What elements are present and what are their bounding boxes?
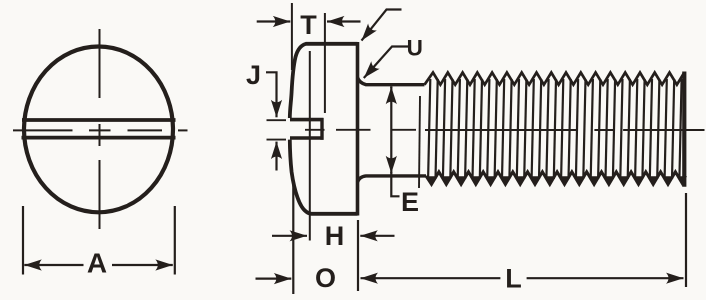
svg-text:U: U [407, 36, 423, 61]
dim T left arrow [257, 20, 291, 22]
slot depth line across crown [309, 51, 311, 241]
dim L right arrow [527, 277, 684, 279]
slot lower edge (front) [22, 136, 176, 140]
svg-text:A: A [87, 248, 107, 279]
dim A extension line right [174, 206, 176, 275]
slot (side view notch) top edge [290, 118, 324, 122]
slot (side view notch) bottom of slot vertical [320, 118, 323, 140]
head outline (pan head profile) [290, 44, 358, 118]
dim T right extension line [324, 13, 326, 113]
fillet + neck bottom line [358, 176, 427, 182]
dim L left arrow [361, 277, 501, 279]
slot edge extension (lower, for J) [267, 139, 287, 141]
dim H left arrow [272, 235, 307, 237]
head bearing face (right side) [356, 42, 360, 216]
thread crest outline top [425, 73, 685, 85]
screw axis centerline [305, 129, 705, 131]
dim E line with arrows [390, 86, 392, 88]
corner leader (to head corner) [362, 10, 402, 41]
svg-text:T: T [300, 10, 317, 40]
dim T right arrow [327, 20, 361, 22]
dim A extension line left [22, 206, 24, 275]
dim J lower arrow [275, 142, 277, 171]
dim A arrow left [24, 264, 83, 266]
svg-text:O: O [315, 263, 336, 293]
vertical centerline (front) [99, 29, 101, 229]
thread flank lines [428, 79, 681, 179]
slot edge extension (upper, for J) [267, 119, 287, 121]
thread crest outline bottom [426, 172, 684, 185]
dim O extension line [292, 179, 294, 294]
svg-text:J: J [246, 60, 261, 90]
dim H/L shared extension line [357, 220, 359, 291]
end face of screw [682, 72, 686, 187]
thread runout line [419, 96, 420, 188]
horizontal centerline (front) [13, 129, 188, 131]
dim O arrow [256, 278, 292, 280]
dim E leader to label [391, 172, 399, 196]
head outline circle [24, 46, 173, 212]
thread root fill (bottom tips) [427, 176, 687, 184]
dim A arrow right [112, 264, 173, 266]
dim L extension line right [685, 193, 687, 287]
slot (side view notch) bottom edge [290, 136, 324, 140]
svg-text:E: E [401, 187, 419, 217]
slot upper edge (front) [22, 118, 176, 122]
fillet + neck top line [358, 78, 425, 85]
dim H right arrow [360, 235, 394, 237]
dim U leader (to fillet) [364, 47, 408, 79]
dim T left extension line [291, 3, 293, 70]
svg-text:L: L [505, 264, 522, 294]
dim J upper arrow [275, 74, 277, 117]
svg-text:H: H [325, 221, 345, 251]
dim J leader from label [266, 72, 277, 74]
